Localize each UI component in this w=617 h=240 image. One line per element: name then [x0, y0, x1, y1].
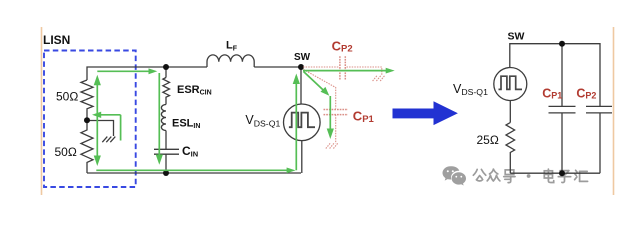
svg-text:SW: SW: [508, 30, 525, 42]
svg-text:50Ω: 50Ω: [55, 145, 77, 159]
svg-text:SW: SW: [294, 52, 311, 63]
svg-text:25Ω: 25Ω: [477, 133, 499, 147]
svg-text:50Ω: 50Ω: [56, 89, 78, 103]
svg-text:LISN: LISN: [43, 33, 70, 47]
